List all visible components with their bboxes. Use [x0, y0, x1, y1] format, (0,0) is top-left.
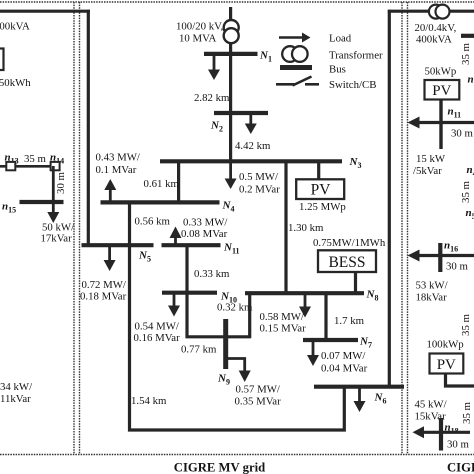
BESS box — [318, 250, 376, 272]
svg-text:35 m: 35 m — [461, 401, 473, 423]
svg-text:0.5 MW/: 0.5 MW/ — [239, 171, 278, 183]
svg-text:30 m: 30 m — [451, 128, 473, 140]
svg-text:100/20 kV,: 100/20 kV, — [176, 21, 223, 33]
load arrow at n15 — [47, 204, 59, 223]
legend: bus icon — [280, 65, 312, 70]
wire: right feeder vertical to bus N6 — [388, 10, 391, 387]
svg-text:0.15 MVar: 0.15 MVar — [260, 323, 307, 335]
svg-text:4.42 km: 4.42 km — [235, 140, 271, 152]
svg-text:0.56 km: 0.56 km — [135, 216, 171, 228]
bus n15 — [20, 200, 64, 204]
svg-text:0.1 MVar: 0.1 MVar — [96, 164, 137, 176]
wire: horizontal junction connector through N9 — [186, 335, 252, 338]
svg-text:0.54 MW/: 0.54 MW/ — [135, 321, 179, 333]
svg-text:1.30 km: 1.30 km — [288, 222, 324, 234]
svg-text:0.32 km: 0.32 km — [217, 302, 253, 314]
svg-text:30 m: 30 m — [447, 439, 469, 451]
bus N5 — [82, 243, 154, 247]
dashed border top — [0, 1, 474, 3]
wire: n13 to n14 — [0, 165, 55, 168]
gen arrow at N11 (up) — [170, 227, 182, 245]
svg-text:250kWh: 250kWh — [0, 77, 31, 89]
wire: n14 down to n15, 30 m — [52, 166, 55, 203]
svg-text:1.7 km: 1.7 km — [334, 315, 365, 327]
svg-text:0.72 MW/: 0.72 MW/ — [82, 279, 126, 291]
load arrow at N9 (L shaped) — [227, 359, 251, 383]
transformer T1 100/20 kV (lower circle) — [224, 28, 239, 43]
wire: left feeder vertical to bus N5 — [87, 10, 90, 245]
PV unit box 100kWp — [430, 354, 464, 374]
bus N7 — [303, 338, 358, 342]
wire: BESS drop to N8 — [354, 271, 357, 293]
switch square at n14 — [51, 162, 60, 170]
svg-text:11kVar: 11kVar — [0, 393, 31, 405]
svg-text:35 m: 35 m — [24, 153, 46, 165]
wire: N4 to N5, 0.56 km — [128, 202, 131, 247]
svg-text:100kWp: 100kWp — [427, 339, 464, 351]
bus N3 — [160, 159, 342, 163]
svg-text:CIGRE LV grid: CIGRE LV grid — [447, 461, 474, 474]
legend: transformer icon — [282, 46, 307, 62]
svg-text:Switch/CB: Switch/CB — [329, 79, 376, 91]
svg-text:0.61 km: 0.61 km — [144, 178, 180, 190]
bus N1 — [204, 52, 258, 56]
load arrow at N8 — [299, 295, 311, 318]
bus N9 (vertical) — [223, 319, 228, 369]
svg-text:PV: PV — [437, 357, 456, 373]
svg-text:1.54 km: 1.54 km — [131, 395, 167, 407]
load arrow at N3 — [225, 163, 237, 189]
dashed border: MV box right edge — [401, 2, 403, 455]
svg-text:0.43 MW/: 0.43 MW/ — [96, 152, 140, 164]
dashed border bottom — [0, 454, 474, 456]
load arrow at N5 — [104, 247, 116, 271]
svg-text:BESS: BESS — [328, 254, 365, 271]
svg-text:30 m: 30 m — [446, 261, 468, 273]
legend: load arrow icon — [279, 33, 311, 43]
svg-text:0.75MW/1MWh: 0.75MW/1MWh — [313, 237, 386, 249]
load arrow at N6 — [354, 389, 366, 413]
load arrow at N1 — [208, 56, 220, 81]
svg-text:35 m: 35 m — [460, 180, 472, 202]
battery box (clipped) — [0, 49, 4, 71]
svg-text:Load: Load — [329, 33, 352, 45]
svg-text:/5kVar: /5kVar — [413, 165, 442, 177]
wire: PV drop through node n11 — [439, 100, 442, 150]
load arrow at N2 — [245, 115, 257, 134]
bus N11 — [162, 243, 221, 247]
svg-text:0.16 MVar: 0.16 MVar — [134, 332, 181, 344]
svg-text:PV: PV — [311, 182, 332, 199]
load arrow at N4 (up) — [104, 179, 116, 201]
node n18 bar — [439, 418, 443, 451]
svg-text:15 kW: 15 kW — [416, 153, 446, 165]
transformer 20/0.4kV (right circle) — [436, 5, 450, 19]
wire: N2 to N3, 4.42 km — [229, 113, 232, 162]
svg-text:30 m: 30 m — [55, 171, 67, 193]
wire: N8 to N7, 1.7 km — [324, 293, 327, 341]
bus N6 — [314, 385, 404, 389]
bus N2 — [214, 111, 268, 115]
wire: N1 to N2, 2.82 km — [229, 54, 232, 114]
transformer 20/0.4kV (left circle) — [429, 5, 443, 19]
wire: top-left link MV to left LV grid — [0, 10, 90, 13]
svg-text:2.82 km: 2.82 km — [194, 92, 230, 104]
wire + load arrow at n16 (left) — [408, 250, 474, 262]
node n16 bar — [438, 243, 442, 272]
svg-text:0.77 km: 0.77 km — [181, 344, 217, 356]
svg-text:0.35 MVar: 0.35 MVar — [235, 396, 282, 408]
svg-text:0.57 MW/: 0.57 MW/ — [236, 384, 280, 396]
svg-text:0.2 MVar: 0.2 MVar — [239, 184, 280, 196]
svg-text:17kVar: 17kVar — [41, 233, 73, 245]
wire: N5 down 1.54 km and bottom run to N6 — [130, 245, 345, 430]
wire: PV 100kWp connector — [446, 374, 474, 387]
svg-text:0.58 MW/: 0.58 MW/ — [260, 311, 304, 323]
PV unit box on N3 — [296, 179, 344, 199]
svg-text:35 m: 35 m — [460, 313, 472, 335]
wire: HV stem through transformer to bus N1 — [229, 7, 232, 54]
switch square at n13 — [6, 162, 15, 170]
svg-text:Bus: Bus — [329, 64, 346, 76]
svg-text:20/0.4kV,: 20/0.4kV, — [415, 22, 457, 34]
svg-text:CIGRE MV grid: CIGRE MV grid — [174, 461, 265, 474]
wire: N3 to N4, 0.61 km — [177, 161, 180, 204]
svg-text:0.08 MVar: 0.08 MVar — [181, 228, 228, 240]
dashed border: MV box left edge — [79, 2, 81, 455]
wire: N11 to N10 to lower junction, 0.33 km — [185, 245, 188, 338]
svg-text:45 kW/: 45 kW/ — [415, 399, 447, 411]
wire: PV drop from bus N3 — [317, 161, 320, 180]
svg-text:1.25 MWp: 1.25 MWp — [299, 201, 346, 213]
svg-text:34 kW/: 34 kW/ — [0, 381, 32, 393]
bus N4 — [101, 200, 220, 204]
svg-text:400kVA: 400kVA — [0, 21, 30, 33]
svg-text:10 MVA: 10 MVA — [179, 33, 217, 45]
svg-text:50kWp: 50kWp — [425, 66, 457, 78]
svg-text:35 m: 35 m — [460, 42, 472, 64]
bus N10 — [162, 291, 217, 295]
svg-text:Transformer: Transformer — [329, 50, 383, 62]
wire: top-right link MV to right LV grid — [388, 10, 474, 13]
wire + load arrow at n11 (left) — [408, 117, 474, 129]
svg-text:0.04 MVar: 0.04 MVar — [321, 363, 368, 375]
svg-text:0.07 MW/: 0.07 MW/ — [321, 350, 365, 362]
PV unit box 50kWp — [425, 80, 460, 100]
svg-text:400kVA: 400kVA — [416, 34, 452, 46]
wire: N8 down to N9 junction, 0.32 km — [248, 293, 251, 338]
dashed border: left LV box right edge — [73, 2, 75, 455]
wire + load arrow at n18 (left) — [413, 426, 471, 438]
svg-text:0.18 MVar: 0.18 MVar — [80, 291, 127, 303]
legend: switch icon — [276, 77, 319, 86]
bus N8 — [245, 291, 364, 295]
svg-text:n2: n2 — [468, 74, 474, 88]
dashed border: right LV box left edge — [407, 2, 409, 455]
svg-text:0.33 km: 0.33 km — [194, 268, 230, 280]
bus at right edge — [461, 34, 474, 38]
load arrow at N10 — [168, 295, 180, 317]
svg-text:0.33 MW/: 0.33 MW/ — [183, 217, 227, 229]
wire: N3 to N8, 1.30 km — [284, 161, 287, 295]
svg-text:PV: PV — [432, 83, 451, 99]
load arrow at N7 — [307, 342, 319, 366]
transformer T1 100/20 kV (upper circle) — [224, 20, 239, 35]
svg-text:18kVar: 18kVar — [416, 292, 448, 304]
svg-text:53 kW/: 53 kW/ — [416, 280, 448, 292]
